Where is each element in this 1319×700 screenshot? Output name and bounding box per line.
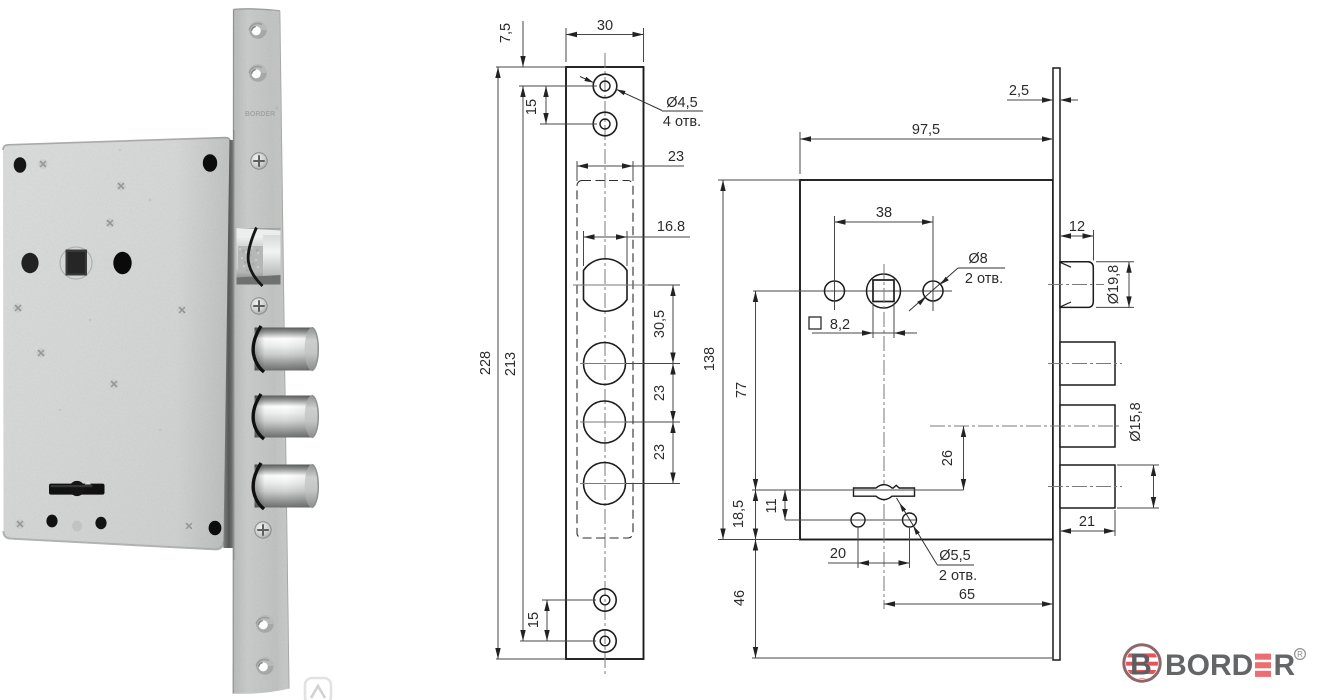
svg-text:8,2: 8,2 — [830, 317, 850, 333]
photo: small screw — [36, 348, 46, 358]
dim 213 — [522, 86, 524, 641]
svg-text:Ø19,8: Ø19,8 — [1106, 265, 1122, 305]
svg-text:11: 11 — [764, 498, 780, 513]
key slot centerline ext — [752, 489, 964, 491]
svg-text:BORDER: BORDER — [245, 111, 275, 118]
svg-text:BORD: BORD — [1165, 649, 1253, 682]
centerline vertical — [604, 53, 606, 674]
screw hole top 1 — [593, 74, 617, 98]
photo: metal grain texture — [0, 0, 320, 700]
svg-text:2,5: 2,5 — [1009, 83, 1029, 99]
svg-text:138: 138 — [702, 347, 718, 371]
svg-text:228: 228 — [478, 351, 494, 375]
dim 30 — [565, 28, 567, 62]
svg-text:R: R — [1297, 650, 1303, 659]
svg-text:12: 12 — [1069, 219, 1085, 235]
photo: faceplate strip — [234, 9, 290, 694]
view: lock body side — [800, 180, 1053, 540]
dim 65 — [884, 603, 1053, 605]
svg-text:20: 20 — [830, 546, 846, 562]
photo: small screw — [38, 159, 48, 169]
dim 23 mid — [670, 364, 675, 375]
photo: countersunk hole — [249, 64, 267, 82]
leader dia 4,5 — [580, 77, 594, 83]
photo: faceplate screw — [255, 522, 271, 538]
svg-text:15: 15 — [524, 99, 540, 115]
dim 20 — [857, 528, 859, 568]
photo: bolt cylinder — [255, 465, 312, 508]
svg-text:65: 65 — [959, 587, 975, 603]
spindle square 8,2 — [873, 280, 894, 302]
svg-text:B: B — [1130, 649, 1152, 682]
centerline marks through holes — [573, 284, 663, 286]
dim 7,5 — [496, 66, 566, 68]
bolt hole 3 — [584, 401, 626, 443]
svg-text:23: 23 — [652, 444, 668, 460]
latch centerline — [1048, 284, 1104, 286]
bolt 2 side — [1060, 405, 1115, 447]
svg-text:26: 26 — [940, 450, 956, 466]
photo: countersunk hole — [256, 657, 274, 675]
screw hole bottom 2 — [594, 630, 616, 652]
dim 26 — [963, 426, 965, 490]
svg-text:23: 23 — [668, 149, 684, 165]
screw holes d5,5 — [785, 519, 916, 521]
svg-text:38: 38 — [876, 205, 892, 221]
svg-text:2 отв.: 2 отв. — [939, 568, 977, 584]
photo: countersunk hole — [249, 21, 267, 39]
dim 23 low — [670, 422, 675, 433]
photo: faceplate right bevel — [272, 10, 290, 691]
svg-text:97,5: 97,5 — [912, 122, 940, 138]
svg-text:Ø15,8: Ø15,8 — [1128, 402, 1144, 442]
svg-text:30: 30 — [597, 18, 613, 34]
svg-text:213: 213 — [503, 352, 519, 376]
dim dia 15,8 — [1117, 464, 1159, 466]
left hole (d8) — [825, 281, 845, 301]
latch bolt profile — [1060, 262, 1093, 308]
photo: black hole/rivet — [46, 515, 57, 528]
dim 11 — [784, 490, 786, 520]
dim 138 — [718, 179, 800, 181]
dim 38 — [834, 216, 836, 310]
dim 18,5 — [755, 490, 757, 540]
photo: black hole/rivet — [21, 253, 38, 273]
dashed lock-body outline — [577, 181, 633, 539]
svg-text:7,5: 7,5 — [498, 23, 514, 43]
vertical centerline through spindle — [883, 264, 885, 609]
dim 30,5 — [648, 284, 680, 286]
BORDER logo emblem — [1124, 653, 1161, 682]
view: faceplate front outline — [566, 67, 644, 659]
bolt 1 side — [1060, 342, 1115, 385]
dim 228 — [496, 658, 566, 660]
photo: faceplate screw — [251, 153, 267, 169]
dim dia 19,8 — [1096, 261, 1134, 263]
dim 97,5 — [799, 132, 801, 174]
bolt hole 4 — [584, 463, 626, 505]
svg-text:Ø5,5: Ø5,5 — [939, 548, 970, 564]
svg-text:Ø4,5: Ø4,5 — [666, 95, 697, 111]
svg-text:15: 15 — [526, 612, 542, 628]
screw hole bottom 1 — [594, 589, 616, 611]
photo: small screw — [15, 519, 25, 529]
photo: latch bolt — [237, 228, 281, 285]
photo: small screw — [105, 218, 115, 228]
leader dia 8 — [909, 268, 958, 311]
photo: small screw — [13, 303, 23, 313]
svg-text:4 отв.: 4 отв. — [663, 114, 701, 130]
photo: black hole/rivet — [209, 521, 222, 535]
dim 21 — [1114, 510, 1116, 536]
photo: bolt cylinder — [255, 396, 312, 438]
photo: key slot — [49, 484, 105, 495]
spindle hole circle — [867, 274, 901, 308]
svg-text:23: 23 — [652, 385, 668, 401]
svg-text:46: 46 — [732, 590, 748, 606]
right hole (d8) — [923, 281, 943, 301]
svg-text:21: 21 — [1079, 514, 1095, 530]
dim 12 — [1093, 230, 1095, 261]
svg-text:18,5: 18,5 — [731, 500, 747, 528]
leader dia 5,5 — [897, 498, 938, 565]
photo: spindle square hole — [60, 247, 92, 279]
registered mark — [1295, 649, 1306, 660]
svg-text:16.8: 16.8 — [657, 219, 685, 235]
svg-text:2 отв.: 2 отв. — [965, 271, 1003, 287]
photo: faceplate screw — [251, 298, 267, 314]
dim 15 bottom — [542, 599, 596, 601]
photo: black hole/rivet — [14, 157, 27, 172]
photo: watermark — [305, 678, 331, 700]
photo: bolt cylinder — [255, 328, 312, 371]
photo: small screw — [184, 521, 194, 531]
photo: black hole/rivet — [113, 252, 131, 274]
photo: black hole/rivet — [95, 517, 106, 529]
photo: small screw — [177, 305, 187, 315]
label square 8,2 — [809, 317, 821, 329]
photo: small screw — [109, 379, 119, 389]
bolt hole 2 — [584, 343, 626, 385]
key slot bar — [854, 485, 915, 500]
svg-text:77: 77 — [734, 382, 750, 398]
view: faceplate edge bar — [1053, 68, 1060, 660]
dim 15 top — [540, 123, 597, 125]
photo: black hole/rivet — [203, 154, 217, 172]
svg-text:30,5: 30,5 — [652, 310, 668, 338]
screw hole top 2 — [593, 112, 617, 136]
dim 23 top — [576, 161, 578, 181]
dim 46 — [752, 657, 1052, 659]
bolt centerlines — [1048, 363, 1122, 365]
cylinder hole with flats (19.8/16.8) — [584, 259, 628, 312]
lock photo: body face — [3, 137, 230, 549]
dim 16.8 — [583, 231, 585, 266]
svg-text:Ø8: Ø8 — [968, 251, 987, 267]
photo: small screw — [116, 181, 126, 191]
bolt 3 side — [1060, 465, 1115, 508]
svg-text:R: R — [1274, 649, 1296, 682]
photo: dark gap between body and lock faceplate — [223, 140, 234, 548]
hole row centerline — [753, 290, 952, 292]
photo: countersunk hole — [256, 615, 274, 633]
dim 77 — [755, 291, 757, 490]
dim 2,5 — [1007, 99, 1053, 101]
photo: light dot — [72, 521, 82, 532]
